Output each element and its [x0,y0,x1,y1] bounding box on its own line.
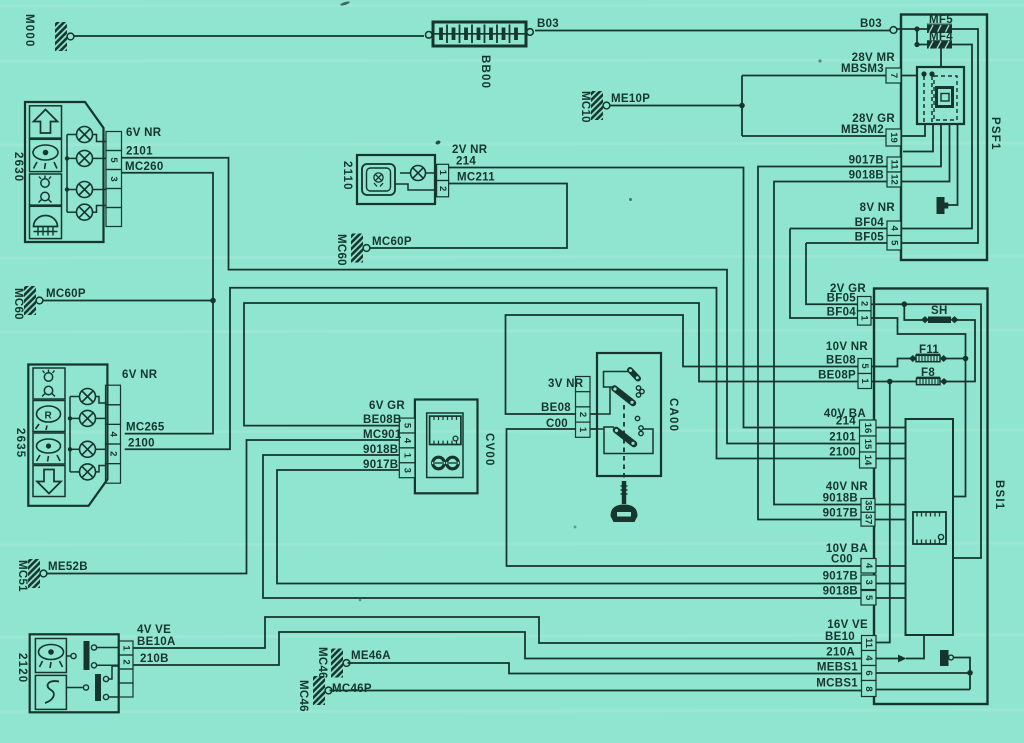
svg-text:R: R [45,411,53,422]
svg-text:19: 19 [888,132,899,143]
svg-text:2101: 2101 [829,432,856,444]
shunt SH inside BSI1 [921,305,959,323]
svg-text:1: 1 [121,645,132,651]
lamp L3 of 2630 [77,182,93,198]
connector pins 5 3 of 2630 [106,132,122,227]
svg-text:BE10: BE10 [825,631,855,643]
contact dots lower [635,416,639,420]
wire lamp bus of 2635 [70,397,106,472]
svg-text:2101: 2101 [126,146,153,158]
svg-text:MEBS1: MEBS1 [817,662,858,674]
svg-text:CA00: CA00 [667,398,679,432]
connector pins 2 1 of CA00 [576,377,591,438]
svg-text:BE10A: BE10A [137,636,176,648]
svg-text:BSI1: BSI1 [993,480,1005,510]
internal wiring upper [597,372,629,415]
svg-text:8V NR: 8V NR [860,202,896,214]
svg-text:1: 1 [437,170,448,176]
svg-text:2100: 2100 [829,447,856,459]
lamp unit 2110 [341,144,495,204]
icon position lamps [30,174,62,205]
wire ME46A from ground MC46 to BSI1 pin 6 [348,663,877,674]
wire MC211 from 2110 pin 2 to ground MC60 [370,184,568,249]
svg-text:9017B: 9017B [849,155,884,167]
svg-text:MC260: MC260 [125,161,164,173]
svg-text:BF05: BF05 [855,232,885,244]
wire B03 battery supply from ground M000 to battery BB00 [74,35,424,37]
pin 19 of PSF1 [841,113,901,146]
svg-text:B03: B03 [860,18,882,30]
svg-text:MC60: MC60 [12,288,24,320]
svg-text:16V VE: 16V VE [827,619,868,631]
chip icon of CV00 [430,416,461,444]
pins 35 37 of BSI1 [823,481,875,526]
connector pins 4 2 of 2635 [106,385,121,483]
wire 9018B from CV00 pin 1 to BSI1 pin 5 [263,455,906,598]
svg-text:MC60P: MC60P [372,236,412,248]
wire MC260 / MC265 from 2630 pin 3 to 2635 pin 4 [122,173,214,434]
wire MBSM3 from node ME10P to PSF1 pin 7 [742,75,886,77]
svg-text:4: 4 [863,563,874,569]
svg-text:BE08P: BE08P [818,370,856,382]
ground MC60 middle [335,234,412,266]
svg-text:MC265: MC265 [126,422,165,434]
icon position lamps 2635 [33,368,65,399]
svg-text:MC46: MC46 [297,680,309,712]
pins 4 3 5 of BSI1 [823,543,876,605]
svg-text:CV00: CV00 [483,433,495,467]
svg-text:5: 5 [863,595,874,601]
lamp L1 of 2635 [80,389,96,405]
svg-text:9017B: 9017B [823,571,858,583]
svg-text:1: 1 [577,427,588,433]
lamp L2 of 2630 [77,150,93,166]
lamp L4 of 2635 [80,464,96,480]
connector pins 1 2 of 2110 [437,164,449,180]
module sub-box inside BSI1 [906,419,954,635]
svg-text:ME52B: ME52B [48,561,88,573]
svg-text:2: 2 [121,659,132,664]
chip inside BSI1 [913,512,946,544]
key symbol [622,481,626,504]
switch contact 1 of 2120 [84,641,90,670]
svg-text:MC46: MC46 [316,647,328,679]
unit BSI1 box [874,289,1005,705]
svg-text:C00: C00 [831,554,853,566]
pins 11 12 of PSF1 [849,155,901,188]
wire relay output stub [903,124,933,152]
svg-text:6V GR: 6V GR [369,400,405,412]
svg-text:MC60: MC60 [335,234,347,266]
wire MC901 from CV00 pin 4 to ground MC51 ME52B [47,440,400,574]
svg-text:BE08: BE08 [826,355,856,367]
svg-text:1: 1 [402,453,413,459]
svg-text:3: 3 [108,176,119,181]
svg-text:PSF1: PSF1 [989,117,1001,151]
svg-text:BF05: BF05 [827,293,857,305]
wire 9018B from PSF1 pin 12 to BSI1 pin 35 [774,182,906,505]
svg-text:214: 214 [836,416,856,428]
wire BE08 from CA00 pin 2 to BSI1 pin 5 [506,315,872,414]
svg-text:5: 5 [108,157,119,163]
pins 4 5 of PSF1 [855,202,901,250]
svg-text:MC10: MC10 [579,91,591,123]
svg-text:3V NR: 3V NR [548,378,584,390]
wire MCBS1 inside BSI1 [876,689,970,691]
node B03 at PSF1 [860,18,897,33]
svg-text:4: 4 [402,438,413,444]
pins 2 1 of BSI1 [827,283,871,325]
wire relay output to pin 11 [901,124,941,167]
svg-text:2630: 2630 [12,152,24,182]
wire BE10A from 2120 pin 1 to BSI1 pin 11 [133,617,876,648]
wire SH right side to F8 right side [947,320,975,382]
svg-text:9018B: 9018B [823,493,858,505]
svg-text:9017B: 9017B [363,459,398,471]
fuse MF4 [927,31,953,49]
pins 16 15 14 of BSI1 [824,408,876,468]
svg-text:6V NR: 6V NR [122,369,158,381]
fuse MF5 [927,14,953,33]
svg-text:MC901: MC901 [363,429,402,441]
svg-text:MBSM3: MBSM3 [841,63,884,75]
screw terminals of CV00 [433,457,445,469]
svg-text:11: 11 [889,159,900,170]
battery BB00 [426,18,560,89]
lamp L3 of 2635 [80,441,96,457]
ground M000 [23,14,74,51]
svg-text:SH: SH [931,305,948,317]
connector unit CV00 [363,400,495,494]
svg-text:5: 5 [859,363,870,369]
wire MF4 to relay coil [940,49,942,68]
svg-text:37: 37 [863,514,874,525]
ignition switch CA00 [541,353,679,522]
svg-text:MBSM2: MBSM2 [841,124,884,136]
lamp L4 of 2630 [77,204,93,220]
scan marks [340,1,822,602]
wire B03 from battery BB00 to PSF1 [535,30,890,32]
wire BE10 branch from F8 node down to BSI1 pin 11 [876,382,890,643]
svg-text:2120: 2120 [16,653,28,683]
wire relay output to pin 12 [901,124,950,182]
svg-text:MC46P: MC46P [332,683,372,695]
icon hook [35,675,66,709]
svg-text:40V NR: 40V NR [826,481,868,493]
transistor element inside BSI1 [940,650,953,666]
svg-text:C00: C00 [546,418,568,430]
svg-text:2110: 2110 [341,161,353,191]
icon rear lamp [33,433,65,464]
svg-text:14: 14 [862,455,873,466]
svg-text:2: 2 [437,186,448,191]
svg-text:210B: 210B [140,653,169,665]
icon arrow down [33,466,65,497]
ground MC51 [16,559,88,592]
contact bar lower [616,430,634,444]
svg-text:4: 4 [863,655,874,661]
internal wiring lower frame [597,427,653,454]
svg-text:1: 1 [859,378,870,384]
wire C00 from CA00 pin 1 to BSI1 pin 4 [507,429,906,566]
svg-text:3: 3 [863,580,874,585]
svg-text:4V VE: 4V VE [137,624,171,636]
svg-text:2: 2 [859,301,870,306]
svg-text:2: 2 [108,451,119,456]
svg-text:BE08B: BE08B [363,414,402,426]
wire BE08 inside BSI1 to fuse F11 [872,359,911,367]
svg-text:MCBS1: MCBS1 [816,678,858,690]
svg-text:8: 8 [863,686,874,691]
svg-text:15: 15 [862,439,873,450]
wire 9017B from PSF1 pin 11 to BSI1 pin 37 [758,167,906,520]
relay inside PSF1 [917,67,964,124]
wire 210A inside BSI1 to module [876,658,898,660]
svg-text:4: 4 [108,432,119,438]
pin 7 of PSF1 [841,52,901,83]
svg-text:ME10P: ME10P [611,93,650,105]
svg-text:9018B: 9018B [849,170,884,182]
svg-text:6: 6 [863,670,874,675]
icon headlight low beam [30,139,62,171]
svg-text:4: 4 [889,226,900,232]
lamp cluster 2635 [14,365,165,506]
svg-text:1: 1 [859,315,870,321]
switch contact 2 of 2120 [95,674,101,701]
wire relay output to connector element [948,124,958,205]
svg-text:2V NR: 2V NR [452,144,488,156]
svg-text:2635: 2635 [14,428,26,458]
svg-text:9018B: 9018B [363,444,398,456]
svg-text:11: 11 [863,638,874,649]
svg-text:M000: M000 [23,14,35,48]
svg-text:MC51: MC51 [16,560,28,592]
svg-text:9018B: 9018B [823,586,858,598]
ground MC10 [579,91,650,123]
arrow on 210A line inside BSI1 [898,655,907,663]
svg-text:9017B: 9017B [823,508,858,520]
svg-text:16: 16 [862,423,873,434]
pins 5 1 of BSI1 [818,341,871,389]
wire BF05 from PSF1 pin 5 down to BSI1 pin 2 [806,243,871,304]
wire transistor to MEBS1 MCBS1 node [953,658,970,690]
contact dots upper [636,386,640,390]
wire MF5 output to pin 5 BF05 of PSF1 [806,29,978,243]
wire ME10P from ground MC10 [610,105,743,107]
svg-text:BF04: BF04 [827,307,857,319]
connector pins 1 2 of 2120 [119,641,133,697]
lamp of 2110 [411,166,426,181]
svg-text:ME46A: ME46A [351,650,391,662]
wire MC60P from left ground MC60 to node on MC260 [44,300,214,302]
icon turn signal arrow [30,106,62,138]
connector element inside PSF1 [937,197,949,214]
wire lamp bus of 2630 [67,135,106,213]
svg-text:2: 2 [577,412,588,417]
svg-text:BB00: BB00 [479,55,491,89]
svg-text:BE08: BE08 [541,402,571,414]
contact pill top [630,370,638,379]
svg-text:BF04: BF04 [855,217,885,229]
connector pins 5 4 1 3 of CV00 [399,418,415,478]
svg-text:MC60P: MC60P [46,288,86,300]
fuse F11 inside BSI1 [909,344,947,362]
switch unit 2120 [16,624,176,712]
lamp L2 of 2635 [80,410,96,426]
wire BF04 inside BSI1 to F11 right and module [871,318,966,497]
svg-text:214: 214 [456,156,476,168]
pins 11 4 6 8 of BSI1 [816,619,876,697]
wire BF05 inside BSI1 to shunt SH and module [871,304,981,558]
icon fog lamp R [33,401,65,432]
ground MC46 upper [316,647,391,679]
wire 214 from 2110 pin 1 to BSI1 pin 16 [449,168,906,428]
unit PSF1 box [901,15,1001,261]
wire MEBS1 inside BSI1 [876,672,970,674]
svg-text:35: 35 [863,500,874,511]
lamp L1 of 2630 [77,127,93,143]
wire B03 inside PSF1 to fuses MF5 MF4 [897,28,927,30]
contact bar upper [615,389,634,404]
wire 2101 from 2630 pin 5 to BSI1 pin 15 [122,158,906,444]
wire 2100 from 2635 pin 2 to BSI1 pin 14 [125,288,906,459]
key dashed axis [623,405,625,481]
wire relay output to pin 19 [901,124,925,136]
svg-text:3: 3 [402,468,413,473]
wire MC46P from ground MC46 to BSI1 pin 8 [330,690,877,692]
wire 9017B from CV00 pin 3 to BSI1 pin 3 [277,470,906,584]
svg-text:210A: 210A [826,647,855,659]
wire F11 right to node [946,358,966,360]
wire MF4 output to pin 4 BF04 of PSF1 [790,45,972,229]
svg-text:7: 7 [888,73,899,78]
svg-text:6V NR: 6V NR [126,127,162,139]
wire 210B from 2120 pin 2 to BSI1 pin 4 [133,632,876,665]
lamp cluster 2630 [12,102,164,242]
svg-text:B03: B03 [537,18,559,30]
svg-text:2100: 2100 [128,438,155,450]
icon lighting eye [35,639,66,673]
svg-text:10V NR: 10V NR [826,341,868,353]
wire BF04 from PSF1 pin 4 down to BSI1 pin 1 [790,229,871,319]
ground MC46 lower [297,676,372,712]
wire PSF1 pin 7 stub to relay [901,75,917,77]
wire BE08P inside BSI1 to fuse F8 [872,381,917,383]
wire BE08B from CV00 pin 5 to BSI1 pin 1 BE08P [244,303,872,426]
svg-text:MC211: MC211 [457,172,495,184]
icon interior lamp [30,206,62,238]
ground MC60 left [12,286,86,320]
svg-text:5: 5 [889,240,900,246]
svg-text:5: 5 [402,423,413,429]
fuse F8 inside BSI1 [917,367,948,385]
wire MBSM2 to PSF1 pin 19 [742,135,886,137]
svg-text:12: 12 [889,174,900,185]
